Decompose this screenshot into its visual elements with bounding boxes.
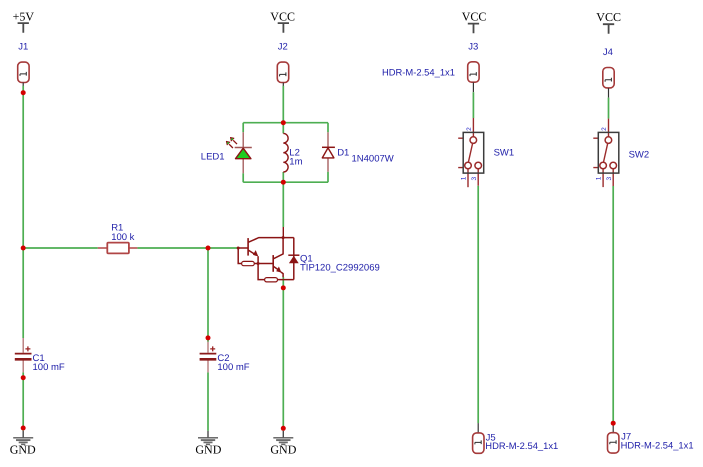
svg-text:HDR-M-2.54_1x1: HDR-M-2.54_1x1 <box>485 440 558 451</box>
svg-text:D1: D1 <box>337 147 349 158</box>
switch SW1 <box>458 118 484 187</box>
junction dot box bottom <box>281 180 286 185</box>
connector J2 <box>277 62 288 86</box>
svg-text:LED1: LED1 <box>201 152 225 163</box>
ground GND (C2) <box>198 431 218 445</box>
wire LED box left verticals <box>242 123 244 183</box>
Q1 collector pin red segment <box>282 227 284 238</box>
svg-text:1: 1 <box>596 176 603 180</box>
junction dot emitter <box>281 285 286 290</box>
wire C1 bottom to GND <box>22 372 24 430</box>
wire SW1 pin3 to J5 <box>477 186 479 423</box>
svg-text:VCC: VCC <box>462 9 487 23</box>
wire J2 down to LED box <box>282 86 284 123</box>
svg-text:HDR-M-2.54_1x1: HDR-M-2.54_1x1 <box>382 67 455 78</box>
svg-text:VCC: VCC <box>270 9 295 23</box>
svg-text:3: 3 <box>606 177 613 181</box>
svg-text:J1: J1 <box>18 41 28 52</box>
svg-text:1: 1 <box>461 176 468 180</box>
connector J4 <box>603 68 614 98</box>
svg-text:GND: GND <box>270 442 296 456</box>
svg-text:GND: GND <box>10 442 36 456</box>
wire Q1 emitter to GND <box>282 277 284 431</box>
junction dot above GND Q1 <box>281 426 286 431</box>
svg-text:3: 3 <box>471 177 478 181</box>
LED LED1 <box>226 132 252 173</box>
connector J3 <box>468 62 479 92</box>
transistor Q1 TIP120 darlington <box>238 238 299 282</box>
svg-text:+5V: +5V <box>13 9 35 23</box>
junction dot J1 wire <box>21 90 26 95</box>
svg-text:100 mF: 100 mF <box>33 362 65 373</box>
svg-text:100 mF: 100 mF <box>217 362 249 373</box>
svg-text:SW2: SW2 <box>629 149 650 160</box>
junction dot +5V/R1 <box>21 246 26 251</box>
svg-text:J2: J2 <box>278 42 288 53</box>
svg-text:1m: 1m <box>289 157 302 168</box>
wire net +5V vertical J1 down to C1 <box>22 86 24 338</box>
inductor L2 <box>283 133 288 172</box>
connector J1 <box>18 62 29 86</box>
power flag +5V <box>13 9 35 32</box>
svg-text:SW1: SW1 <box>494 147 515 158</box>
resistor R1 <box>98 243 138 254</box>
svg-text:2: 2 <box>466 127 473 131</box>
svg-text:2: 2 <box>601 127 608 131</box>
svg-text:GND: GND <box>195 442 221 456</box>
junction dot box top <box>281 120 286 125</box>
wire J3 to SW1 <box>472 92 474 118</box>
svg-text:J3: J3 <box>468 42 478 53</box>
switch SW2 <box>593 119 619 188</box>
junction dot above GND C1 <box>21 426 26 431</box>
power flag VCC (J4) <box>596 10 621 34</box>
transistor Q1 emitter arrowheads and diode fill <box>237 236 299 273</box>
wire J4 to SW2 <box>608 98 610 119</box>
power flag VCC (J3) <box>462 9 487 33</box>
diode D1 <box>322 132 335 172</box>
connector J7 <box>608 423 619 453</box>
wire LED box rectangle <box>243 123 328 183</box>
wire LED box right verticals <box>327 123 329 183</box>
wire net +5V horizontal to R1 <box>23 247 98 249</box>
junction dot R1/C2 branch <box>206 246 211 251</box>
capacitor C2 <box>200 342 217 373</box>
wire C2 branch vertical <box>207 248 209 342</box>
wire C2 bottom to GND <box>207 372 209 430</box>
svg-text:TIP120_C2992069: TIP120_C2992069 <box>300 262 380 273</box>
ground GND (C1) <box>13 431 33 445</box>
ground GND (Q1) <box>273 431 293 445</box>
svg-text:J4: J4 <box>603 47 613 58</box>
wire LED box mid verticals <box>282 123 284 183</box>
junction dot above J7 <box>611 421 616 426</box>
wire SW2 pin3 to J7 <box>612 186 614 423</box>
junction dot above C2 <box>206 335 211 340</box>
svg-text:100 k: 100 k <box>111 232 134 243</box>
capacitor C1 <box>15 338 32 372</box>
svg-text:1N4007W: 1N4007W <box>352 154 394 165</box>
svg-text:HDR-M-2.54_1x1: HDR-M-2.54_1x1 <box>621 440 694 451</box>
wire box bottom to Q1 collector <box>282 182 284 227</box>
connector J5 <box>473 423 484 453</box>
power flag VCC (J2) <box>270 9 295 32</box>
svg-text:VCC: VCC <box>596 10 621 24</box>
junction dot below C1 <box>21 375 26 380</box>
wire R1 right to Q1 base <box>137 247 238 249</box>
